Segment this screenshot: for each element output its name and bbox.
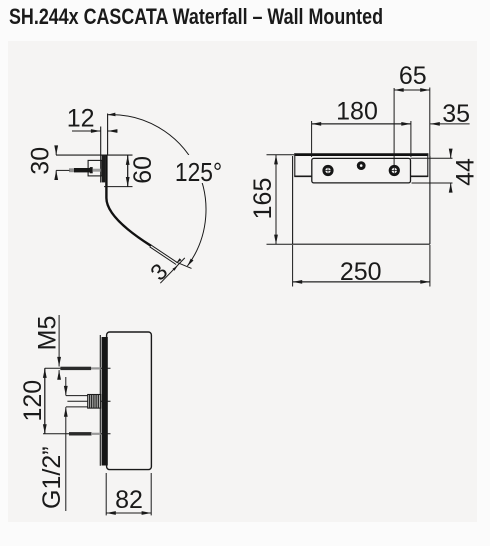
center outlet dot: [357, 161, 366, 170]
spout curved sheet (thick): [106, 155, 151, 246]
plate top line / ext line for 30 and 60: [56, 154, 133, 156]
angle leg ext line at tip: [177, 262, 192, 268]
body: [107, 332, 152, 470]
dim 125 degrees arc: [107, 115, 206, 266]
svg-text:165: 165: [249, 178, 277, 220]
svg-text:180: 180: [336, 98, 378, 126]
svg-text:125°: 125°: [175, 157, 222, 187]
plate dark bar: [102, 337, 108, 466]
svg-text:44: 44: [452, 158, 480, 186]
right screw: [389, 165, 400, 176]
spout tip double line: [151, 245, 177, 263]
dim 3 (sheet thickness): [160, 258, 185, 283]
plate thin line: [99, 335, 101, 466]
svg-text:82: 82: [115, 486, 143, 514]
vertical angle reference leg: [107, 114, 109, 156]
svg-text:65: 65: [399, 62, 427, 90]
svg-text:M5: M5: [34, 316, 62, 351]
svg-text:SH.244x CASCATA Waterfall – Wa: SH.244x CASCATA Waterfall – Wall Mounted: [9, 4, 383, 29]
water outline big rectangle: [293, 156, 430, 244]
head bar: [294, 153, 428, 156]
left screw: [322, 165, 333, 176]
top screw M5: [45, 367, 111, 369]
wall plate dark bar (side view): [102, 155, 106, 182]
svg-text:60: 60: [129, 156, 157, 184]
svg-text:30: 30: [26, 147, 54, 175]
bottom screw: [43, 433, 111, 435]
plate front face line: [100, 155, 102, 182]
svg-text:120: 120: [19, 380, 47, 422]
svg-text:12: 12: [67, 104, 95, 132]
bracket (inlet socket, side view): [88, 160, 102, 176]
svg-text:G1/2”: G1/2”: [38, 446, 66, 509]
mounting plate (front): [312, 158, 411, 183]
ext line 12 left (down to plate): [100, 127, 102, 156]
G 1/2 connector: [66, 395, 88, 397]
bolt (side view): [69, 168, 75, 172]
